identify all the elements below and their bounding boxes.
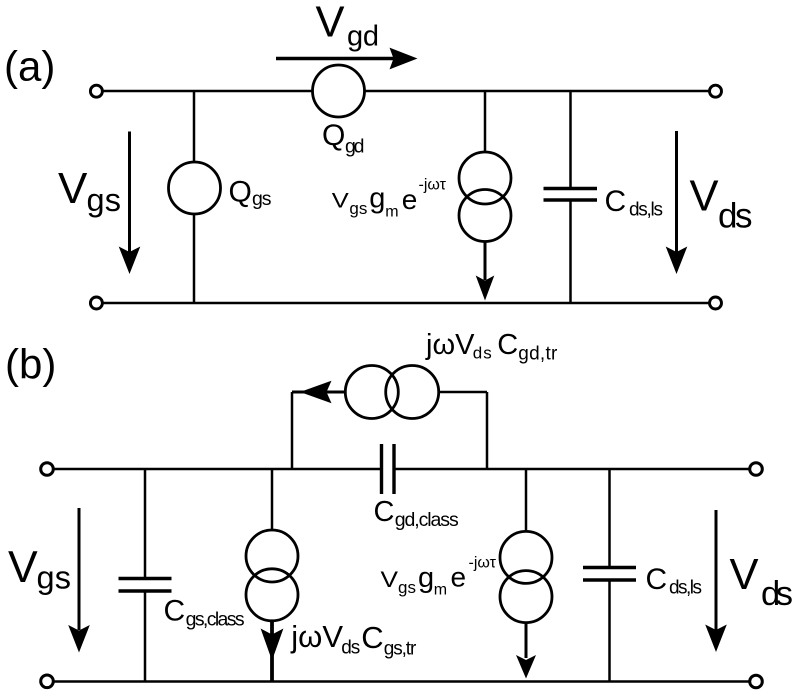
node S terminal bottom-left (a) [90,297,102,309]
svg-text:gd: gd [345,136,365,158]
capacitor C_ds,ls (b) [583,566,636,569]
capacitor C_gd,class plate left [380,444,383,494]
svg-text:-jωτ: -jωτ [419,177,447,194]
svg-text:e: e [402,184,418,215]
svg-text:V: V [316,0,345,47]
svg-text:(a): (a) [4,43,55,90]
svg-text:gd,tr: gd,tr [518,344,558,365]
svg-text:C: C [164,595,186,628]
wire feedback left vertical [291,392,294,469]
wire feedback right vertical [486,392,489,469]
svg-text:ds: ds [341,638,360,659]
arrow V_ds (a) [675,131,678,252]
wire feedback right horizontal [438,391,487,394]
current source Vgs gm (b) bottom circle [500,571,552,623]
svg-text:V: V [381,567,399,592]
node D terminal top-right (a) [710,85,722,97]
svg-text:(b): (b) [5,341,56,388]
wire C_gs,class bottom [144,591,147,682]
svg-text:m: m [434,582,447,599]
svg-text:C: C [646,563,668,596]
svg-text:ds,ls: ds,ls [629,200,663,221]
wire top rail right segment (b) [395,468,749,471]
wire Q_gs to bottom rail [193,213,196,303]
node D terminal top-right (b) [750,463,763,476]
svg-text:C: C [497,329,518,361]
node S terminal bottom-right (b) [750,675,763,688]
svg-text:g: g [369,183,385,215]
svg-text:e: e [451,562,467,593]
svg-text:jωV: jωV [290,619,343,654]
charge source Q_gd [313,65,365,117]
svg-text:V: V [58,164,88,213]
svg-text:ds,ls: ds,ls [669,578,702,599]
arrow V_gs (b) [78,508,81,630]
svg-text:m: m [385,204,398,221]
svg-text:gs: gs [37,560,72,596]
wire feedback left with arrow [292,391,346,394]
svg-text:-jωτ: -jωτ [469,555,497,572]
svg-text:C: C [374,496,395,528]
svg-text:gs: gs [349,199,367,218]
wire top rail left segment (a) [103,90,313,93]
wire top rail left segment (b) [54,468,380,471]
arrow V_gd current direction [276,57,398,60]
wire gate branch to Q_gs [193,91,196,163]
wire bottom rail (b) [54,680,749,683]
capacitor C_gd,class plate right [392,444,395,494]
svg-text:jωV: jωV [425,329,475,361]
wire bottom rail (a) [103,302,710,305]
wire C_ds,ls (b) top [608,469,611,567]
svg-text:gs: gs [398,578,416,597]
current source jwVdsCgs,tr bottom circle [246,569,298,621]
svg-text:Q: Q [322,119,345,152]
arrow current source output (b) [525,622,528,659]
svg-text:ds: ds [718,197,753,236]
wire top rail right segment (a) [364,90,710,93]
svg-text:V: V [8,543,38,592]
svg-text:V: V [332,190,349,213]
arrow V_ds (b) [715,510,718,630]
current source jwVdsCgd,tr left circle [345,366,398,419]
current source Vgs gm (a) bottom circle [459,190,511,242]
capacitor C_gs,class [119,577,172,580]
wire C_ds,ls (b) bottom [608,580,611,682]
wire to source jwVdsCgs,tr [271,469,274,531]
wire to controlled source (b) [525,469,528,532]
node G terminal top-left (b) [41,463,54,476]
svg-text:gs,tr: gs,tr [384,639,417,660]
svg-text:C: C [361,620,383,655]
node S terminal bottom-left (b) [41,675,54,688]
svg-text:V: V [690,173,719,221]
current source jwVdsCgs,tr top circle [246,530,298,582]
wire capacitor branch top (a) [569,91,572,188]
arrow current source output (a) [484,241,487,281]
wire to controlled source (a) [484,91,487,153]
svg-text:gs,class: gs,class [186,608,245,630]
svg-text:C: C [605,185,627,218]
capacitor C_ds,ls (a) [544,187,598,190]
node G terminal top-left (a) [90,85,102,97]
wire C_gs,class top [144,469,147,578]
current source Vgs gm (a) top circle [459,152,511,204]
wire capacitor branch bottom (a) [569,201,572,303]
svg-text:Q: Q [229,176,252,209]
arrow source jwVdsCgs,tr output [270,620,274,682]
svg-text:gd,class: gd,class [395,509,459,531]
current source jwVdsCgd,tr right circle [386,366,439,419]
charge source Q_gs [169,162,221,214]
svg-text:g: g [418,562,434,594]
arrow V_gs (a) [128,132,131,253]
svg-text:gd: gd [347,21,379,53]
svg-text:gs: gs [87,182,122,218]
node S terminal bottom-right (a) [710,297,722,309]
svg-text:ds: ds [761,575,793,613]
svg-text:gs: gs [252,188,272,210]
svg-text:V: V [730,551,759,599]
current source Vgs gm (b) top circle [500,531,552,583]
